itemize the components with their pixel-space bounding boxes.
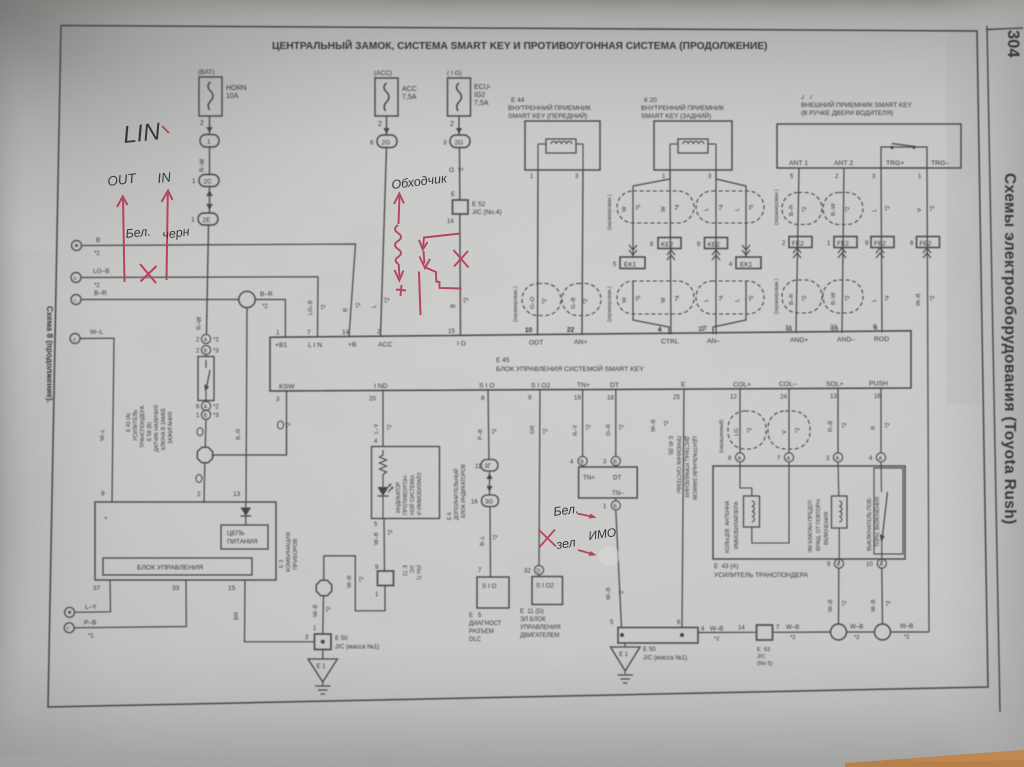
- svg-text:KSW: KSW: [279, 384, 295, 391]
- page top-right corner rule: [986, 28, 1023, 30]
- svg-text:B–W: B–W: [831, 292, 837, 305]
- svg-text:*2: *2: [321, 305, 327, 310]
- terminal b (LG-B wire): [71, 268, 110, 289]
- wire ANT1: [790, 168, 799, 333]
- svg-text:B–R: B–R: [789, 294, 795, 305]
- svg-text:A: A: [787, 456, 791, 462]
- svg-text:*3: *3: [213, 349, 219, 355]
- E45 top pin numbers: [276, 324, 877, 337]
- svg-text:B: B: [204, 349, 208, 355]
- diode inside combination meter: [241, 502, 252, 525]
- svg-text:B: B: [613, 504, 617, 510]
- wire KSW from E45 pin 3: [278, 391, 293, 455]
- svg-text:ACC: ACC: [378, 341, 392, 348]
- ring antenna coil inside E43: [740, 462, 789, 543]
- handwriting зел with cross: [539, 530, 597, 557]
- svg-text:ANT 1: ANT 1: [789, 160, 808, 167]
- junction FE2 ANT2: [827, 237, 857, 259]
- junction EK1 right: [729, 245, 761, 269]
- svg-text:11: 11: [785, 325, 792, 332]
- shielded connector pair G-O / G-B: [522, 284, 601, 316]
- connector 1: [200, 135, 219, 148]
- junction KE2 (AN- wire): [697, 238, 728, 261]
- antenna coil symbol K20: [670, 139, 716, 170]
- svg-text:SMART KEY (ЗАДНИЙ): SMART KEY (ЗАДНИЙ): [641, 111, 711, 120]
- svg-text:W–B: W–B: [900, 623, 913, 630]
- svg-text:W–B: W–B: [786, 624, 799, 631]
- svg-text:*2: *2: [619, 425, 625, 430]
- wire R from E45 PUSH pin 16: [871, 388, 891, 452]
- connector 3G upper: [475, 460, 498, 472]
- svg-text:A: A: [879, 562, 883, 568]
- svg-text:CTRL: CTRL: [661, 338, 679, 345]
- svg-text:7,5A: 7,5A: [474, 100, 489, 107]
- svg-text:E 44: E 44: [511, 97, 525, 104]
- solenoid valve caption vertical: [808, 498, 830, 553]
- wire pair merge to AN- pin 17: [698, 281, 746, 334]
- junction node octagon key switch: [197, 447, 212, 462]
- svg-text:ВНУТРЕННИЙ ПРИЕМНИК: ВНУТРЕННИЙ ПРИЕМНИК: [641, 103, 724, 112]
- E45 bottom pin numbers: [276, 393, 881, 403]
- svg-text:1: 1: [192, 178, 196, 185]
- svg-text:*4: *4: [675, 204, 681, 210]
- junction EK1 left: [613, 245, 645, 269]
- connector B TN+: [570, 456, 587, 465]
- svg-text:P–B: P–B: [84, 620, 96, 627]
- svg-text:*2: *2: [493, 535, 499, 540]
- wire L to E45 pin 2 ACC: [372, 148, 391, 337]
- svg-text:E 43 (A): E 43 (A): [714, 563, 738, 570]
- TN block captions vertical: [667, 436, 697, 500]
- svg-text:ЦЕНТРАЛЬНЫМ ЗАМКОМ: ЦЕНТРАЛЬНЫМ ЗАМКОМ: [691, 436, 697, 500]
- svg-text:W: W: [622, 206, 628, 212]
- svg-text:W–B: W–B: [606, 587, 612, 600]
- svg-text:COL+: COL+: [733, 381, 751, 388]
- svg-text:I ND: I ND: [374, 383, 388, 390]
- svg-text:I G: I G: [457, 341, 466, 348]
- svg-text:*2: *2: [464, 297, 470, 303]
- svg-text:2: 2: [197, 491, 201, 498]
- svg-text:KE2: KE2: [708, 242, 721, 249]
- svg-text:*2: *2: [842, 423, 848, 428]
- combination meter caption vertical: [279, 532, 299, 572]
- key detect switch E58 connector B top: [196, 345, 219, 354]
- wire BR from pin 15 to E50: [234, 580, 315, 642]
- svg-text:E 43 (A): E 43 (A): [126, 413, 132, 432]
- restart switch caption vertical: [867, 497, 881, 551]
- svg-text:ПРИЕМНИК СИСТЕМЫ: ПРИЕМНИК СИСТЕМЫ: [675, 436, 681, 494]
- svg-text:*2: *2: [326, 607, 332, 612]
- svg-text:ПРОТИВОУГОН-: ПРОТИВОУГОН-: [403, 474, 409, 515]
- wire pair merge to CTRL pin 4: [633, 281, 669, 334]
- svg-text:W–B: W–B: [313, 604, 319, 617]
- key detect switch connector B bottom: [196, 410, 219, 419]
- receiver E44 internal smart key front: [508, 97, 600, 170]
- svg-text:ПРИБОРОВ: ПРИБОРОВ: [293, 538, 299, 570]
- svg-text:*2: *2: [459, 167, 465, 173]
- svg-text:SOL+: SOL+: [826, 381, 844, 388]
- svg-text:R: R: [871, 426, 877, 430]
- shielded connector pair LG / V: [728, 411, 810, 449]
- svg-text:12: 12: [730, 394, 737, 401]
- ground E1 left: [308, 650, 337, 695]
- svg-text:*2: *2: [854, 635, 859, 641]
- svg-text:*4: *4: [719, 295, 725, 301]
- svg-text:(No 5): (No 5): [757, 661, 773, 667]
- svg-text:EK1: EK1: [624, 262, 637, 269]
- svg-text:2: 2: [200, 120, 204, 127]
- svg-text:G–O: G–O: [530, 296, 536, 309]
- svg-text:БЛОК УПРАВЛЕНИЯ СИСТЕМОЙ SMART: БЛОК УПРАВЛЕНИЯ СИСТЕМОЙ SMART KEY: [496, 364, 644, 373]
- svg-text:15: 15: [448, 328, 455, 335]
- svg-text:(BAT): (BAT): [198, 69, 215, 76]
- junction node octagon W-B bus 2: [875, 624, 891, 640]
- svg-text:W–B: W–B: [828, 599, 834, 612]
- svg-text:E 53: E 53: [757, 647, 770, 653]
- svg-text:*5: *5: [636, 296, 642, 301]
- svg-text:14: 14: [447, 219, 454, 225]
- svg-text:B–R: B–R: [236, 429, 242, 440]
- svg-text:2G: 2G: [455, 140, 464, 147]
- svg-text:W–B: W–B: [651, 419, 657, 432]
- wire W-B from E6 pin 5 to E72: [374, 519, 394, 572]
- connector 2G (ACC): [370, 135, 397, 148]
- connector A SOL+: [826, 453, 843, 462]
- svg-text:*2: *2: [802, 296, 808, 301]
- svg-text:*5: *5: [636, 205, 642, 210]
- svg-text:J/C (масса №1): J/C (масса №1): [643, 655, 687, 662]
- svg-text:ЭЛ БЛОК: ЭЛ БЛОК: [520, 617, 546, 623]
- svg-text:TN–: TN–: [612, 490, 624, 497]
- svg-text:HORN: HORN: [226, 85, 247, 92]
- svg-text:УСИЛИТЕЛЬ ТРАНСПОНДЕРА: УСИЛИТЕЛЬ ТРАНСПОНДЕРА: [714, 572, 809, 579]
- receiver K20 internal smart key rear: [641, 97, 732, 170]
- svg-text:TN+: TN+: [583, 475, 595, 482]
- svg-text:ECU-: ECU-: [474, 84, 492, 91]
- wire TRG- down to W-B bus: [918, 168, 929, 632]
- svg-text:+B: +B: [348, 342, 357, 349]
- svg-text:A: A: [204, 405, 208, 411]
- wire B from terminal a to E45 +B: [82, 244, 356, 337]
- W-B ground bus from E50 to TRG- wire: [698, 623, 929, 643]
- svg-text:*2: *2: [94, 283, 100, 289]
- svg-text:V: V: [917, 208, 923, 212]
- svg-text:ЦЕНТРАЛЬНЫЙ ЗАМОК, СИСТЕМА SMA: ЦЕНТРАЛЬНЫЙ ЗАМОК, СИСТЕМА SMART KEY И П…: [272, 39, 767, 52]
- svg-text:B: B: [613, 460, 617, 466]
- svg-text:Схема 8 (продолжение).: Схема 8 (продолжение).: [45, 306, 54, 403]
- wire W-L to combination meter pin 9: [80, 338, 114, 502]
- svg-text:*2: *2: [213, 338, 219, 344]
- svg-text:*2: *2: [802, 207, 808, 212]
- svg-text:E: E: [681, 382, 686, 389]
- svg-text:*5: *5: [749, 296, 755, 301]
- wire COL+ from E45 pin 12: [739, 389, 741, 453]
- wire K20 pin 3 pair fork: [708, 170, 746, 335]
- annotation arrow IN: [162, 191, 173, 281]
- svg-text:ANT 2: ANT 2: [834, 160, 853, 167]
- svg-text:G–B: G–B: [571, 297, 577, 309]
- svg-text:E 1: E 1: [619, 652, 629, 658]
- wire IG to junction E52: [449, 148, 465, 201]
- svg-text:DT: DT: [613, 475, 622, 482]
- svg-text:DT: DT: [610, 382, 619, 389]
- key detect switch E58 connector A top: [196, 334, 219, 343]
- svg-text:B–W: B–W: [831, 203, 837, 216]
- svg-text:J/C: J/C: [408, 565, 414, 573]
- wire E44 pin 3 to AN+: [575, 170, 583, 334]
- wire ANT2: [835, 168, 844, 333]
- svg-text:*2: *2: [619, 591, 625, 596]
- connector 2C: [192, 175, 219, 187]
- junction E53 J/C (No 5): [757, 625, 773, 667]
- svg-text:ВКЛЮЧЕНИЯ: ВКЛЮЧЕНИЯ: [824, 512, 830, 545]
- svg-text:ИНДИКАТОР: ИНДИКАТОР: [396, 481, 402, 513]
- connector A COL+: [728, 453, 745, 462]
- terminal c (B-R wire): [71, 290, 107, 305]
- svg-text:TRG+: TRG+: [886, 160, 904, 167]
- annotation stroke vertical: [419, 272, 421, 316]
- svg-text:R–W: R–W: [197, 316, 203, 330]
- wire COL- from E45 pin 24: [788, 389, 790, 453]
- svg-text:B–L: B–L: [480, 535, 486, 546]
- wire R-W: [200, 147, 210, 175]
- svg-text:25: 25: [673, 394, 680, 401]
- svg-text:*4: *4: [885, 295, 891, 301]
- junction FE2 TRG-: [910, 237, 940, 259]
- svg-text:ТРАНСПОНДЕРА: ТРАНСПОНДЕРА: [140, 405, 146, 448]
- svg-text:ВНЕШНИЙ ПРИЕМНИК SMART KEY: ВНЕШНИЙ ПРИЕМНИК SMART KEY: [801, 100, 913, 109]
- shielded connector row 2 K20: [617, 281, 764, 314]
- svg-text:R–Y: R–Y: [573, 425, 579, 436]
- svg-text:PUSH: PUSH: [869, 381, 888, 388]
- connector D to engine ECU: [524, 565, 544, 574]
- connector A pin 9: [827, 559, 844, 568]
- svg-text:R–B: R–B: [828, 421, 834, 432]
- shielded connector row 1 J7 ANT pair: [782, 193, 863, 225]
- remote control receiver block TN: [579, 466, 638, 498]
- svg-text:3Г: 3Г: [485, 464, 492, 470]
- svg-text:B: B: [343, 308, 349, 312]
- control unit box: [103, 558, 252, 575]
- svg-text:*2: *2: [94, 251, 100, 257]
- connector A pin 10: [866, 559, 886, 568]
- wire GR from E45 SIO2 pin 9: [530, 390, 549, 565]
- E43 captions below: [714, 563, 809, 579]
- svg-text:*2: *2: [790, 635, 795, 641]
- svg-text:J 7: J 7: [801, 95, 813, 101]
- wire L-Y to pin 37: [75, 580, 111, 612]
- svg-text:W: W: [622, 297, 628, 303]
- svg-text:3: 3: [276, 396, 280, 403]
- svg-text:B: B: [96, 237, 100, 244]
- svg-text:ВЫКЛЮЧАТЕЛЬ ПОВ-: ВЫКЛЮЧАТЕЛЬ ПОВ-: [867, 497, 873, 551]
- wire P-B to pin 33: [74, 580, 186, 628]
- wire L-Y from E45 IND pin 20: [374, 390, 393, 446]
- svg-text:*2: *2: [845, 207, 851, 212]
- svg-text:*4: *4: [675, 295, 681, 301]
- svg-text:W: W: [661, 206, 667, 212]
- svg-text:*2: *2: [904, 635, 909, 641]
- svg-text:ПИТАНИЯ: ПИТАНИЯ: [227, 539, 258, 546]
- junction E52 J/C (No.4): [447, 200, 502, 225]
- svg-text:A: A: [738, 456, 742, 462]
- svg-text:8: 8: [481, 395, 485, 402]
- connector B TN-: [603, 498, 620, 510]
- svg-text:*2: *2: [583, 299, 589, 304]
- annotation cross on IG wire: [454, 250, 469, 268]
- svg-text:(окрашенный): (окрашенный): [718, 419, 725, 453]
- svg-text:ДВИГАТЕЛЕМ: ДВИГАТЕЛЕМ: [520, 633, 559, 639]
- svg-text:A: A: [879, 456, 883, 462]
- svg-text:E 50: E 50: [643, 646, 656, 653]
- antenna coil symbol E44: [538, 139, 583, 170]
- power supply circuit box: [221, 525, 268, 549]
- ground E1 main: [611, 643, 641, 683]
- connector 3G lower: [471, 495, 499, 507]
- wire B-R junction to E45 +B1: [255, 300, 285, 338]
- svg-text:2: 2: [450, 121, 454, 128]
- svg-text:D: D: [537, 569, 541, 575]
- svg-text:Схемы электрооборудования (Toy: Схемы электрооборудования (Toyota Rush): [1001, 173, 1018, 525]
- svg-text:1: 1: [191, 217, 195, 224]
- shielded connector row 2 J7: [782, 280, 863, 313]
- svg-text:И ИММОБИЛАЙЗ: И ИММОБИЛАЙЗ: [415, 473, 423, 515]
- junction FE2 ANT1: [782, 237, 812, 259]
- terminal f (P-B wire): [64, 620, 96, 640]
- svg-text:B: B: [451, 304, 457, 308]
- svg-text:*2: *2: [842, 601, 848, 606]
- svg-text:P–B: P–B: [478, 429, 484, 440]
- svg-text:(экранирован.): (экранирован.): [774, 278, 780, 314]
- svg-text:B–R: B–R: [789, 205, 795, 216]
- svg-text:(экранирован.): (экранирован.): [607, 286, 613, 322]
- svg-text:БЛОК УПРАВЛЕНИЯ: БЛОК УПРАВЛЕНИЯ: [137, 565, 203, 572]
- svg-text:EK1: EK1: [740, 262, 753, 269]
- svg-text:*2: *2: [586, 425, 592, 430]
- svg-text:W–B: W–B: [871, 599, 877, 612]
- svg-text:GR: GR: [530, 425, 536, 434]
- svg-text:13: 13: [830, 393, 837, 400]
- svg-text:L I N: L I N: [308, 342, 322, 349]
- svg-text:BR: BR: [234, 612, 240, 620]
- svg-text:ДОПОЛНИТЕЛЬНЫЙ: ДОПОЛНИТЕЛЬНЫЙ: [452, 468, 460, 520]
- svg-text:10: 10: [525, 327, 532, 334]
- svg-text:A: A: [836, 456, 840, 462]
- svg-text:УПРАВЛЕНИЯ: УПРАВЛЕНИЯ: [520, 625, 561, 631]
- svg-text:*2: *2: [388, 530, 394, 535]
- svg-text:E 45 (B): E 45 (B): [667, 436, 673, 455]
- svg-text:*2: *2: [714, 637, 719, 643]
- E45 bottom pin labels: [279, 381, 888, 391]
- svg-text:16: 16: [471, 500, 478, 506]
- svg-text:W–B: W–B: [710, 626, 723, 633]
- svg-text:2E: 2E: [203, 217, 212, 224]
- svg-text:32: 32: [524, 569, 531, 575]
- svg-text:FE2: FE2: [874, 241, 886, 248]
- svg-text:W–L: W–L: [90, 329, 104, 336]
- wire fuse HORN to connector 1: [200, 116, 213, 134]
- junction node B-R: [239, 291, 273, 310]
- wire label W-B *2: [347, 575, 365, 588]
- svg-text:15: 15: [228, 585, 236, 592]
- junction node octagon W-B: [316, 580, 331, 595]
- svg-text:(экранирован.): (экранирован.): [607, 194, 613, 230]
- engine control block E11: [520, 575, 563, 639]
- svg-text:TRG–: TRG–: [931, 160, 949, 167]
- svg-text:КОЛЬЦЕВ. АНТЕННА: КОЛЬЦЕВ. АНТЕННА: [725, 500, 731, 553]
- wire P-B from E45 SIO pin 8: [478, 390, 498, 459]
- svg-text:*2: *2: [747, 428, 753, 433]
- svg-text:B: B: [580, 460, 584, 466]
- svg-text:L–Y: L–Y: [374, 424, 380, 434]
- svg-text:6: 6: [370, 140, 374, 147]
- svg-text:17: 17: [700, 325, 707, 332]
- svg-text:W–B: W–B: [916, 293, 922, 306]
- diagnostic connector DLC S10: [469, 577, 509, 643]
- svg-text:COL–: COL–: [779, 381, 797, 388]
- svg-text:J/C (No.4): J/C (No.4): [472, 209, 502, 216]
- svg-text:ЦЕПЬ: ЦЕПЬ: [227, 530, 245, 537]
- wire fuse ACC to connector 2G: [378, 116, 390, 135]
- svg-text:LG: LG: [734, 428, 740, 436]
- junction E72 J/C (No.7): [375, 565, 421, 598]
- svg-text:S I O: S I O: [479, 383, 495, 390]
- svg-text:O–R: O–R: [606, 424, 612, 436]
- svg-text:S I O2: S I O2: [536, 583, 554, 590]
- svg-text:*2: *2: [930, 296, 936, 301]
- junction node octagon W-B bus 1: [831, 624, 847, 640]
- key detect switch connector A bottom: [196, 401, 219, 410]
- svg-text:19: 19: [574, 395, 581, 402]
- svg-text:2G: 2G: [382, 140, 391, 147]
- svg-text:SMART KEY (ПЕРЕДНИЙ): SMART KEY (ПЕРЕДНИЙ): [508, 111, 587, 120]
- svg-text:W: W: [661, 297, 667, 303]
- LED inside E6: [378, 480, 394, 519]
- svg-text:37: 37: [93, 585, 101, 592]
- svg-text:*2: *2: [262, 304, 268, 310]
- svg-text:ROD: ROD: [874, 336, 889, 343]
- svg-text:УСИЛИТЕЛЬ: УСИЛИТЕЛЬ: [133, 409, 139, 441]
- wire R-Y from E45 TN+ pin 19: [573, 390, 592, 457]
- svg-text:16: 16: [874, 393, 881, 400]
- svg-text:*3: *3: [213, 413, 219, 419]
- block E45 smart key system control unit: [270, 331, 911, 391]
- svg-text:TN+: TN+: [577, 382, 590, 389]
- wire W-B pin 9A to bus: [828, 568, 848, 624]
- svg-text:(экранирован.): (экранирован.): [513, 286, 519, 322]
- handwriting LIN: [122, 118, 169, 149]
- solenoid coil inside E43: [832, 462, 848, 563]
- svg-text:A: A: [837, 562, 841, 568]
- svg-text:*4: *4: [719, 204, 725, 210]
- svg-text:E 45: E 45: [496, 357, 510, 364]
- svg-text:(В РУЧКЕ ДВЕРИ ВОДИТЕЛЯ): (В РУЧКЕ ДВЕРИ ВОДИТЕЛЯ): [801, 110, 893, 117]
- wire fuse IG to connector 2G: [450, 116, 462, 135]
- svg-text:К 20: К 20: [644, 97, 657, 104]
- svg-text:*5: *5: [749, 205, 755, 210]
- junction arrows between 2C and 2E: [206, 187, 212, 214]
- svg-text:3: 3: [443, 140, 447, 147]
- wire K20 pin 1 pair fork: [633, 170, 671, 334]
- svg-text:Бел.: Бел.: [125, 224, 152, 241]
- svg-text:*2: *2: [795, 428, 801, 433]
- svg-text:FE2: FE2: [920, 241, 932, 248]
- annotation arrow with coil (bypass): [394, 194, 406, 297]
- svg-text:J/C (масса №1): J/C (масса №1): [335, 644, 379, 651]
- junction FE2 TRG+: [865, 237, 894, 259]
- svg-text:ACC: ACC: [402, 86, 417, 93]
- svg-text:304: 304: [1004, 30, 1022, 58]
